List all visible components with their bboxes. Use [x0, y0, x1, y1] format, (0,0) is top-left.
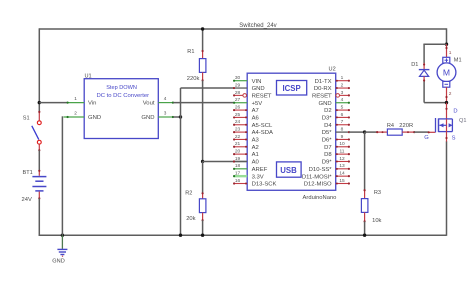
- pin 13 U2 D10-SS*: [309, 163, 350, 173]
- pin 5 U2 D2: [324, 104, 350, 114]
- svg-text:A1: A1: [252, 152, 259, 158]
- svg-text:BT1: BT1: [23, 170, 33, 176]
- wire R1 to divider node: [202, 80, 204, 162]
- svg-text:D10-SS*: D10-SS*: [309, 167, 333, 173]
- wire Vin branch: [39, 102, 67, 104]
- pin 11 U2 D8: [324, 149, 350, 159]
- junction ground tap: [61, 234, 64, 237]
- resistor R3 10k: [361, 189, 368, 222]
- svg-text:S1: S1: [23, 115, 30, 121]
- switch S1: [32, 111, 41, 151]
- svg-text:AREF: AREF: [252, 167, 268, 173]
- svg-text:26: 26: [235, 104, 241, 110]
- svg-text:D12-MISO: D12-MISO: [304, 182, 332, 188]
- svg-text:7: 7: [341, 119, 344, 125]
- wire top rail to R1: [202, 29, 204, 51]
- wire R4 to MOSFET gate: [414, 131, 435, 133]
- wire U1 pin3 to GND riser: [173, 116, 180, 118]
- svg-text:DC to DC Converter: DC to DC Converter: [96, 93, 149, 99]
- pin 7 U2 D4: [324, 119, 350, 129]
- svg-text:D13-SCK: D13-SCK: [252, 182, 277, 188]
- diode D1: [419, 63, 430, 82]
- wire right vertical top (rail to motor junction): [446, 28, 448, 44]
- wire R3 to bottom rail: [364, 221, 366, 235]
- svg-text:20k: 20k: [186, 216, 195, 222]
- svg-text:+5V: +5V: [252, 101, 263, 107]
- junction motor top node: [445, 43, 448, 46]
- resistor R4 220R: [376, 129, 415, 135]
- svg-text:22: 22: [235, 134, 241, 140]
- svg-text:25: 25: [235, 112, 241, 118]
- pin 14 U2 D11-MOSI*: [302, 171, 350, 181]
- svg-text:U1: U1: [85, 73, 92, 79]
- svg-text:A3: A3: [252, 138, 260, 144]
- battery BT1: [32, 170, 46, 200]
- pin 18 U2 AREF: [233, 163, 268, 173]
- svg-text:29: 29: [235, 82, 241, 88]
- wire divider node to Arduino A0: [203, 160, 248, 162]
- svg-text:4: 4: [164, 96, 167, 101]
- svg-text:R3: R3: [374, 190, 381, 196]
- svg-text:10: 10: [339, 141, 345, 147]
- pin 2 U2 D0-RX: [314, 82, 350, 92]
- svg-text:1: 1: [449, 50, 452, 56]
- svg-text:D11-MOSI*: D11-MOSI*: [302, 174, 332, 180]
- wire divider node to R2: [202, 162, 204, 194]
- pin 20 U2 A1: [233, 149, 259, 159]
- pin 10 U2 D7: [324, 141, 350, 151]
- wire gate node down to R3: [364, 132, 366, 190]
- svg-text:23: 23: [235, 127, 241, 133]
- svg-text:3.3V: 3.3V: [252, 174, 264, 180]
- svg-text:D4: D4: [324, 123, 332, 129]
- svg-text:15: 15: [339, 178, 345, 184]
- pin 3 U2 RESET: [312, 90, 350, 100]
- wire switch to battery: [38, 150, 40, 171]
- pin 22 U2 A3: [233, 134, 260, 144]
- svg-text:D1-TX: D1-TX: [315, 79, 332, 85]
- pin 8 U2 D5*: [322, 127, 350, 137]
- junction R3 bottom rail: [363, 234, 366, 237]
- svg-text:D3*: D3*: [322, 116, 333, 122]
- svg-text:GND: GND: [52, 259, 64, 265]
- svg-text:Switched_24v: Switched_24v: [239, 23, 276, 29]
- svg-text:12: 12: [339, 156, 345, 162]
- svg-text:A2: A2: [252, 145, 259, 151]
- svg-text:D5*: D5*: [322, 130, 333, 136]
- svg-text:A6: A6: [252, 116, 260, 122]
- svg-text:5: 5: [341, 104, 344, 110]
- svg-text:GND: GND: [319, 101, 332, 107]
- pin 19 U2 A0: [233, 156, 260, 166]
- pin 26 U2 A7: [233, 104, 259, 114]
- wire top rail Switched_24v: [39, 28, 446, 30]
- svg-text:13: 13: [339, 163, 345, 169]
- resistor R2 20k: [199, 192, 206, 221]
- svg-text:3: 3: [341, 90, 344, 96]
- junction R2 bottom rail: [201, 234, 204, 237]
- transistor Q1 N-MOSFET: [436, 103, 453, 142]
- junction battery-switch node to U1 Vin: [38, 101, 41, 104]
- svg-text:3: 3: [164, 111, 167, 116]
- svg-text:GND: GND: [252, 86, 265, 92]
- svg-text:GND: GND: [141, 115, 154, 121]
- svg-text:18: 18: [235, 163, 241, 169]
- wire bottom rail GND net: [39, 234, 447, 236]
- wire left vertical (rail to switch): [38, 28, 40, 113]
- svg-text:R1: R1: [187, 49, 194, 55]
- pin 4 U1 Vout: [158, 96, 174, 104]
- svg-text:D6*: D6*: [322, 138, 333, 144]
- wire diode branch bottom: [424, 82, 446, 103]
- pin 21 U2 A2: [233, 141, 259, 151]
- pin 6 U2 D3*: [322, 112, 350, 122]
- svg-text:30: 30: [235, 75, 241, 81]
- svg-text:16: 16: [235, 178, 241, 184]
- wire U1 Vout to Arduino +5V: [173, 102, 233, 104]
- pin 24 U2 A5-SCL: [233, 119, 273, 129]
- wire diode branch top: [423, 44, 446, 63]
- svg-text:ICSP: ICSP: [282, 84, 300, 93]
- pin 25 U2 A6: [233, 112, 260, 122]
- wire GND riser vertical: [180, 88, 182, 235]
- svg-text:10k: 10k: [372, 218, 381, 224]
- resistor R1 220k: [199, 50, 206, 82]
- svg-text:USB: USB: [280, 166, 297, 175]
- pin 29 U2 GND: [233, 82, 265, 92]
- svg-text:Vin: Vin: [88, 101, 96, 107]
- svg-text:19: 19: [235, 156, 241, 162]
- svg-text:G: G: [424, 135, 429, 141]
- label ICSP box: [277, 81, 307, 96]
- svg-text:A5-SCL: A5-SCL: [252, 123, 273, 129]
- svg-text:Vout: Vout: [143, 101, 155, 107]
- svg-text:4: 4: [341, 97, 344, 103]
- svg-text:ArduinoNano: ArduinoNano: [303, 195, 337, 201]
- pin 17 U2 3.3V: [233, 171, 264, 181]
- svg-text:VIN: VIN: [252, 79, 262, 85]
- motor M1: [437, 44, 456, 102]
- svg-text:D2: D2: [324, 108, 332, 114]
- svg-text:14: 14: [339, 171, 345, 177]
- wire battery to bottom rail: [38, 198, 40, 235]
- svg-text:A4-SDA: A4-SDA: [252, 130, 273, 136]
- wire U1 pin2 to ground rail: [61, 116, 63, 235]
- pin 9 U2 D6*: [322, 134, 350, 144]
- junction divider node: [201, 160, 204, 163]
- svg-text:RESET: RESET: [252, 93, 272, 99]
- pin 1 U1 Vin: [67, 96, 85, 104]
- svg-text:8: 8: [341, 127, 344, 133]
- svg-text:M1: M1: [454, 57, 462, 63]
- wire GND riser to Arduino pin29: [181, 87, 234, 89]
- pin 30 U2 VIN: [233, 75, 261, 85]
- svg-text:U2: U2: [329, 66, 336, 72]
- svg-text:D8: D8: [324, 152, 332, 158]
- pin 28 U2 RESET: [233, 90, 272, 100]
- svg-text:R2: R2: [185, 191, 192, 197]
- wire R2 to bottom rail: [202, 220, 204, 235]
- junction GND riser at bottom rail: [179, 234, 182, 237]
- wire Arduino D5 to gate node: [349, 131, 365, 133]
- pin 2 U1 GND: [64, 111, 85, 119]
- junction top rail R1: [201, 27, 204, 30]
- svg-text:Step DOWN: Step DOWN: [106, 85, 137, 91]
- svg-text:A0: A0: [252, 160, 260, 166]
- ground: [57, 235, 67, 257]
- svg-text:Q1: Q1: [459, 118, 466, 124]
- svg-text:220k: 220k: [187, 76, 200, 82]
- svg-text:17: 17: [235, 171, 241, 177]
- op-amp U1 Step DOWN DC to DC Converter box: [84, 79, 158, 139]
- svg-text:D7: D7: [324, 145, 332, 151]
- svg-text:1: 1: [74, 96, 77, 101]
- svg-text:24: 24: [235, 119, 241, 125]
- wire right vertical bottom (MOSFET source to rail): [446, 141, 448, 236]
- svg-text:D1: D1: [411, 62, 418, 68]
- pin 23 U2 A4-SDA: [233, 127, 273, 137]
- svg-text:28: 28: [235, 90, 241, 96]
- svg-text:9: 9: [341, 134, 344, 140]
- label USB box: [277, 162, 302, 177]
- svg-text:RESET: RESET: [312, 93, 332, 99]
- svg-text:A7: A7: [252, 108, 259, 114]
- pin 12 U2 D9*: [322, 156, 350, 166]
- svg-text:24V: 24V: [22, 197, 32, 203]
- pin 16 U2 D13-SCK: [233, 178, 277, 188]
- pin 27 U2 +5V: [233, 97, 262, 107]
- pin 4 U2 GND: [319, 97, 350, 107]
- svg-text:R4: R4: [387, 123, 394, 129]
- svg-text:D9*: D9*: [322, 160, 333, 166]
- junction gate node: [363, 130, 366, 133]
- svg-text:20: 20: [235, 149, 241, 155]
- svg-text:S: S: [452, 136, 456, 142]
- junction motor bottom node: [445, 101, 448, 104]
- svg-text:2: 2: [449, 91, 452, 97]
- svg-text:GND: GND: [88, 115, 101, 121]
- pin 3 U1 GND: [158, 111, 174, 119]
- svg-text:D0-RX: D0-RX: [314, 86, 332, 92]
- svg-text:M: M: [443, 68, 450, 78]
- svg-text:2: 2: [341, 82, 344, 88]
- svg-text:21: 21: [235, 141, 241, 147]
- svg-text:D: D: [453, 108, 457, 114]
- pin 15 U2 D12-MISO: [304, 178, 350, 188]
- svg-text:27: 27: [235, 97, 241, 103]
- pin 1 U2 D1-TX: [315, 75, 350, 85]
- svg-text:1: 1: [341, 75, 344, 81]
- junction GND riser at U1 pin3: [179, 115, 182, 118]
- svg-text:2: 2: [74, 111, 77, 116]
- op-amp U2 ArduinoNano box: [247, 73, 336, 190]
- svg-text:220R: 220R: [399, 123, 413, 129]
- wire gate node to R4: [365, 131, 378, 133]
- svg-text:11: 11: [340, 149, 345, 155]
- svg-text:6: 6: [341, 112, 344, 118]
